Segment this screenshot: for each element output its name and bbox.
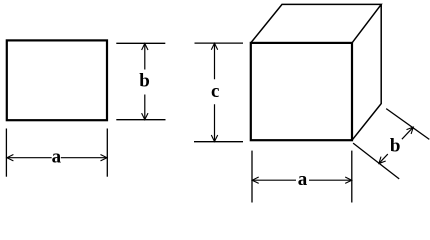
dimension c: up arrowhead bbox=[211, 43, 217, 50]
dimension b (right): diagonal dimension line with text gap bbox=[379, 127, 413, 163]
dimension a (left): right arrowhead bbox=[101, 155, 108, 161]
dimension a (right): left extension line bbox=[251, 151, 253, 203]
dimension a (left): left extension line bbox=[5, 129, 7, 177]
svg-text:a: a bbox=[52, 146, 62, 167]
dimension a (left): horizontal dimension line with text gap bbox=[7, 157, 107, 159]
svg-text:c: c bbox=[211, 81, 219, 102]
dimension a (left): left arrowhead bbox=[7, 155, 13, 161]
dimension a (left): right extension line bbox=[106, 129, 108, 177]
dimension b (right): upper-right arrowhead bbox=[407, 127, 414, 134]
dimension a (right): horizontal dimension line with text gap bbox=[252, 179, 351, 181]
dimension b (left): down arrowhead bbox=[142, 113, 148, 120]
dimension b (right): lower-left arrowhead bbox=[379, 157, 386, 164]
box top and right faces (back edges) bbox=[251, 4, 381, 140]
dimension b (right): lower extension line bbox=[353, 143, 399, 179]
dimension c: top extension line bbox=[195, 42, 244, 44]
dimension b (left): up arrowhead bbox=[142, 44, 148, 51]
dimension a (right): left arrowhead bbox=[252, 177, 259, 183]
svg-text:b: b bbox=[390, 136, 401, 157]
dimension b (left): top extension line bbox=[116, 42, 165, 44]
dimension c: down arrowhead bbox=[211, 135, 217, 142]
svg-text:a: a bbox=[298, 169, 308, 190]
dimension b (left): bottom extension line bbox=[116, 119, 165, 121]
dimension c: vertical dimension line with text gap bbox=[214, 43, 216, 141]
dimension a (right): right extension line bbox=[351, 151, 353, 203]
dimension b (left): vertical dimension line with text gap bbox=[144, 44, 146, 120]
dimension b (right): upper extension line bbox=[386, 109, 429, 140]
rectangle (left, a x b) bbox=[7, 40, 107, 120]
box front face bbox=[251, 43, 352, 140]
dimension a (right): right arrowhead bbox=[345, 177, 352, 183]
dimension c: bottom extension line bbox=[194, 141, 243, 143]
svg-text:b: b bbox=[139, 71, 150, 92]
